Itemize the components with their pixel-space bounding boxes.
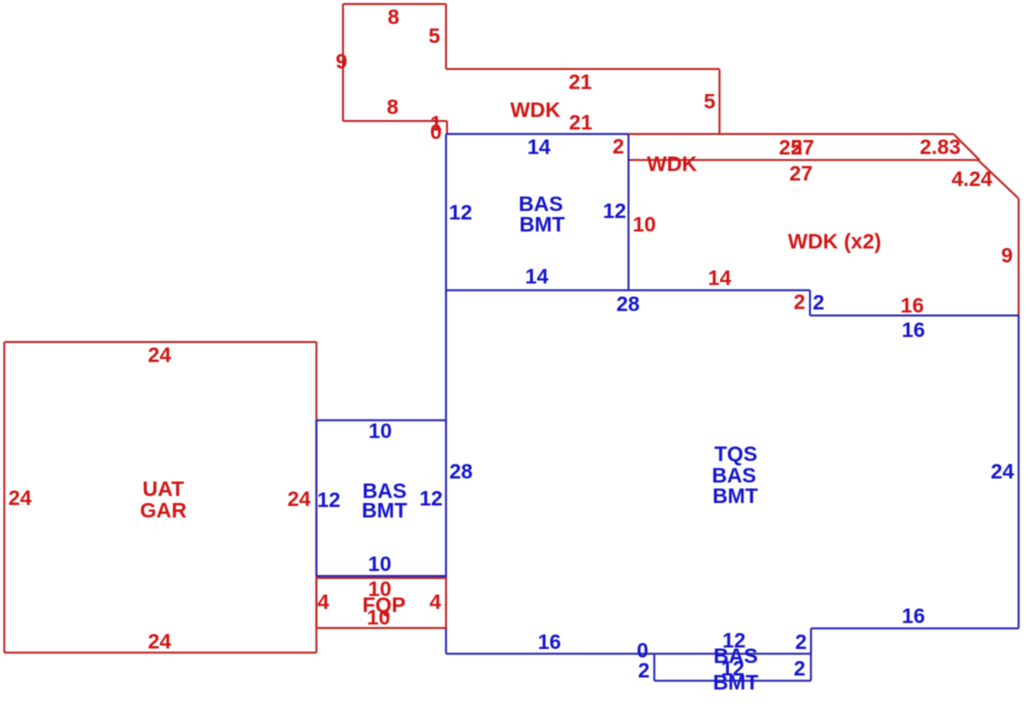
deck2 wall 27 [629, 159, 979, 161]
svg-text:WDK: WDK [647, 153, 697, 176]
svg-text:4: 4 [430, 591, 442, 614]
deck1 jog wall 1 [446, 121, 448, 134]
house right wall 24 [1018, 316, 1020, 629]
svg-text:10: 10 [368, 553, 391, 576]
svg-text:2: 2 [638, 660, 650, 683]
svg-text:12: 12 [317, 489, 340, 512]
svg-text:24: 24 [148, 630, 172, 653]
svg-text:2: 2 [612, 136, 624, 159]
garage left wall 24 [3, 342, 5, 653]
mid basement bottom wall 10 [316, 575, 446, 577]
svg-text:16: 16 [902, 605, 925, 628]
svg-text:12: 12 [449, 202, 472, 225]
svg-text:0: 0 [430, 121, 442, 144]
house left wall 28 [445, 290, 447, 654]
svg-text:TQS: TQS [714, 443, 757, 466]
bump-out right wall 2 [810, 654, 812, 681]
svg-text:10: 10 [367, 607, 390, 630]
deck1 right wall 5 [719, 69, 721, 134]
svg-text:21: 21 [569, 111, 593, 134]
basement box right wall 12 [628, 134, 630, 290]
svg-text:5: 5 [704, 91, 716, 114]
porch bottom wall 10 [316, 627, 446, 629]
svg-text:8: 8 [387, 96, 399, 119]
deck2 diagonal wall 2.83 [954, 134, 980, 160]
svg-text:14: 14 [527, 136, 551, 159]
svg-text:2: 2 [813, 292, 825, 315]
house top wall 16 [810, 315, 1019, 317]
deck1 bottom wall 8 [343, 120, 447, 122]
svg-text:BMT: BMT [519, 214, 565, 237]
svg-text:2: 2 [795, 631, 807, 654]
house step wall 2 [809, 290, 811, 315]
svg-text:BMT: BMT [713, 671, 759, 694]
svg-text:12: 12 [419, 488, 442, 511]
deck1 top wall 21 [446, 68, 720, 70]
svg-text:24: 24 [148, 344, 172, 367]
svg-text:9: 9 [1001, 245, 1013, 268]
svg-text:12: 12 [603, 200, 626, 223]
basement box top wall 14 [446, 133, 629, 135]
porch right wall 4 [445, 578, 447, 628]
porch top wall 10 [316, 577, 446, 579]
svg-text:24: 24 [287, 488, 311, 511]
svg-text:BMT: BMT [362, 500, 408, 523]
svg-text:10: 10 [369, 420, 392, 443]
svg-text:4.24: 4.24 [951, 168, 992, 191]
svg-text:10: 10 [633, 214, 656, 237]
house step wall 2 bottom [810, 628, 812, 653]
svg-text:14: 14 [708, 267, 732, 290]
deck1 left wall 9 [342, 4, 344, 121]
house top wall 14+28 [446, 289, 810, 291]
garage top wall 24 [4, 341, 316, 343]
svg-text:BMT: BMT [712, 485, 758, 508]
svg-text:9: 9 [336, 51, 348, 74]
svg-text:8: 8 [388, 6, 400, 29]
svg-text:27: 27 [789, 162, 812, 185]
svg-text:24: 24 [8, 487, 32, 510]
bump-out bottom wall 12 [654, 680, 811, 682]
svg-text:4: 4 [318, 591, 330, 614]
svg-text:2: 2 [794, 291, 806, 314]
garage bottom wall 24 [4, 652, 316, 654]
deck2 right wall 9 [1018, 199, 1020, 316]
svg-text:UAT: UAT [142, 478, 184, 501]
basement box left wall 12 [445, 134, 447, 290]
mid basement top wall 10 [316, 419, 446, 421]
svg-text:2.83: 2.83 [920, 136, 961, 159]
svg-text:WDK: WDK [510, 99, 560, 122]
svg-text:16: 16 [538, 631, 561, 654]
svg-text:21: 21 [569, 71, 593, 94]
svg-text:5: 5 [428, 25, 440, 48]
svg-text:WDK (x2): WDK (x2) [788, 231, 881, 254]
mid basement right wall 12 [445, 420, 447, 576]
svg-text:GAR: GAR [140, 500, 187, 523]
porch left wall 4 [315, 578, 317, 628]
svg-text:16: 16 [902, 319, 925, 342]
deck1 top wall 8 [343, 3, 446, 5]
deck1/deck2 shared wall 21/25 [447, 133, 954, 135]
svg-text:28: 28 [616, 293, 640, 316]
deck2 diagonal wall 4.24 [978, 160, 1019, 199]
svg-text:24: 24 [991, 461, 1015, 484]
garage right wall 24 [315, 342, 317, 653]
svg-text:BAS: BAS [519, 193, 563, 216]
deck1 upper right wall 5 [445, 4, 447, 69]
bump-out left wall 2 [653, 654, 655, 681]
house bottom wall 16+12 [446, 653, 811, 655]
mid basement left wall 12 [315, 420, 317, 576]
svg-text:16: 16 [901, 295, 924, 318]
svg-text:14: 14 [525, 266, 549, 289]
svg-text:2: 2 [794, 658, 806, 681]
house bottom wall 16 right [811, 627, 1019, 629]
svg-text:28: 28 [449, 461, 473, 484]
svg-text:27: 27 [791, 137, 814, 160]
